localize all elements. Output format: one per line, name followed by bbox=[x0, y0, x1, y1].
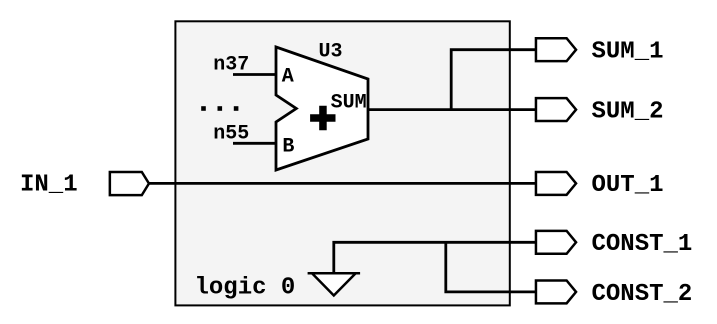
svg-text:SUM_2: SUM_2 bbox=[592, 98, 664, 125]
svg-text:U3: U3 bbox=[319, 40, 343, 63]
wire branch to SUM_1 bbox=[451, 50, 536, 110]
svg-text:IN_1: IN_1 bbox=[20, 172, 78, 199]
output port OUT_1 bbox=[536, 172, 576, 195]
output port CONST_2 bbox=[536, 280, 576, 303]
svg-text:A: A bbox=[282, 66, 294, 89]
svg-text:B: B bbox=[282, 136, 294, 159]
adder U3 bbox=[276, 47, 368, 170]
svg-text:n55: n55 bbox=[213, 123, 249, 146]
wire IN_1 to OUT_1 bbox=[149, 182, 536, 185]
ground triangle (logic 0) bbox=[308, 273, 361, 295]
svg-text:SUM_1: SUM_1 bbox=[592, 39, 664, 66]
output port CONST_1 bbox=[536, 231, 576, 254]
svg-text:n37: n37 bbox=[213, 54, 249, 77]
plus symbol bbox=[310, 106, 335, 131]
svg-text:OUT_1: OUT_1 bbox=[592, 172, 664, 199]
module box bbox=[175, 21, 509, 305]
output port SUM_1 bbox=[536, 38, 576, 61]
svg-text:SUM: SUM bbox=[331, 92, 367, 115]
wire n37 to pin A bbox=[233, 73, 277, 76]
ellipsis dots bbox=[201, 106, 238, 111]
svg-text:CONST_1: CONST_1 bbox=[592, 231, 693, 258]
wire logic0 to CONST_1 bbox=[334, 242, 536, 273]
input port IN_1 bbox=[110, 172, 149, 195]
svg-text:CONST_2: CONST_2 bbox=[592, 281, 693, 308]
wire branch to CONST_2 bbox=[446, 242, 536, 292]
wire n55 to pin B bbox=[233, 142, 277, 145]
wire SUM output to SUM_2 bbox=[367, 108, 536, 111]
svg-text:logic 0: logic 0 bbox=[195, 275, 296, 302]
output port SUM_2 bbox=[536, 98, 576, 121]
